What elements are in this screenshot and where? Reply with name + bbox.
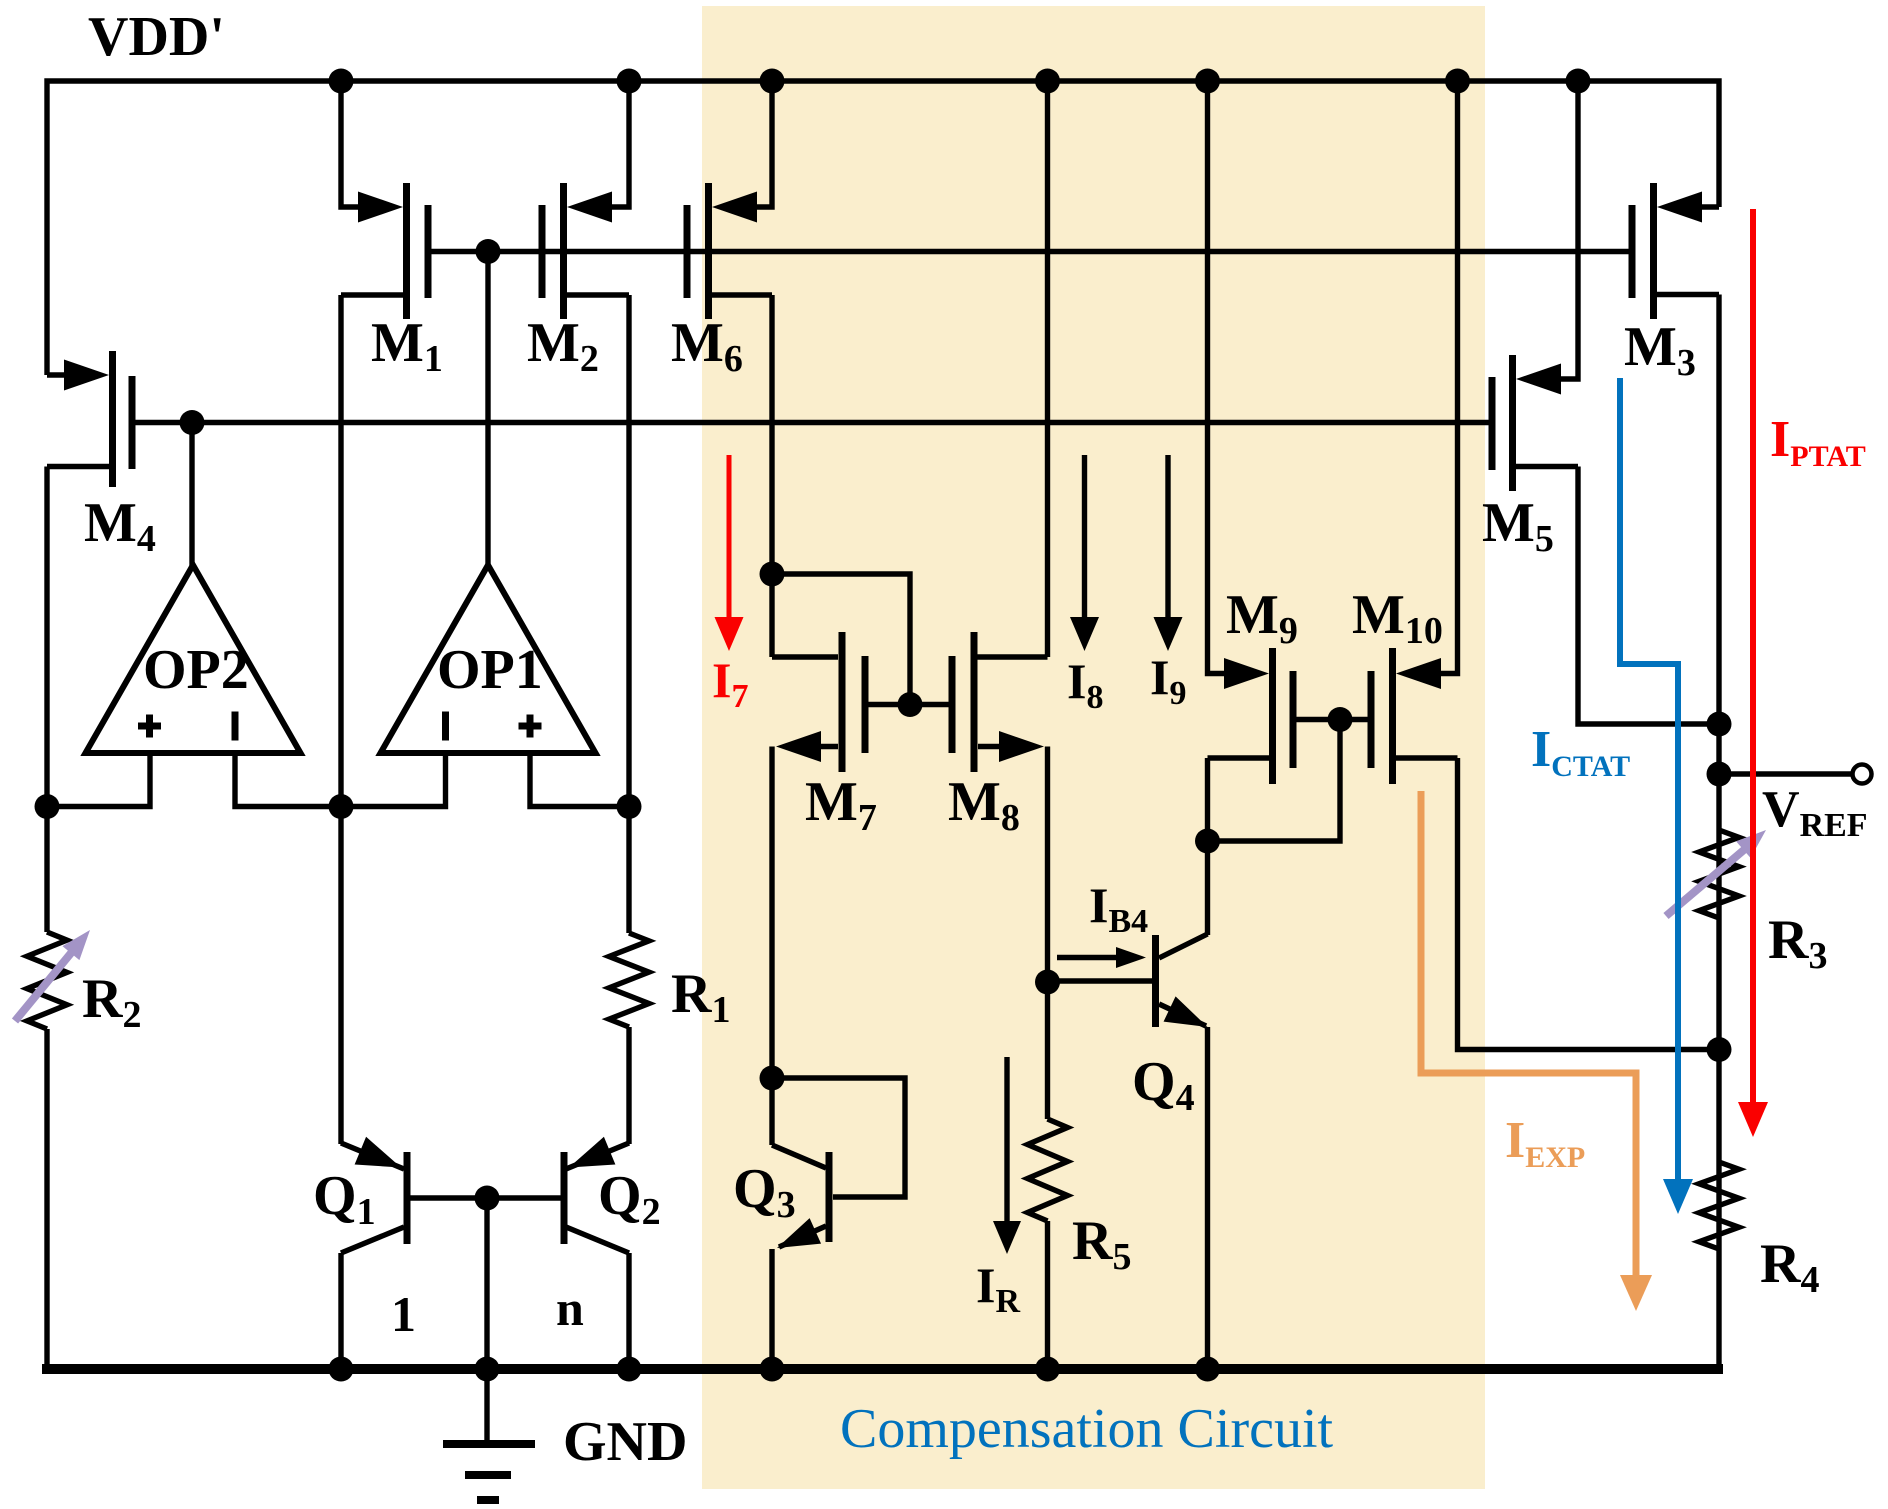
wire M7 source down to Q3 [769, 747, 774, 1146]
svg-text:VREF: VREF [1762, 781, 1868, 844]
wire base tap down to ground rail [484, 1198, 489, 1369]
current arrow IB4 [1057, 955, 1127, 960]
wire M3 drain down right rail to VREF/R3/R4 [1716, 295, 1721, 1370]
wire R5 bottom to ground rail [1045, 1221, 1050, 1369]
R2 adjustment arrow [15, 947, 76, 1021]
svg-text:OP1: OP1 [437, 639, 543, 701]
transistor Q2 (PNP) [561, 1152, 568, 1244]
node Q4 base tap [1035, 970, 1060, 995]
wire M9 diode connection jog [1208, 720, 1341, 842]
node base bus to ground tap [475, 1186, 500, 1211]
node Q3 emitter at ground rail [760, 1357, 785, 1382]
resistor R2 (variable) [27, 932, 67, 1029]
wire R1 bottom to Q2 emitter [626, 1027, 631, 1144]
transistor M9 (PMOS) [1224, 658, 1269, 689]
wire VDD down to M9 source (I9 branch) [1208, 81, 1227, 674]
R3 adjustment arrow [1666, 849, 1745, 916]
node M6 drain / M7 gate tap [760, 562, 785, 587]
wire M7 diode connection jog [772, 574, 910, 705]
svg-text:IEXP: IEXP [1505, 1112, 1585, 1174]
svg-text:M2: M2 [527, 312, 599, 380]
node M10 drain at right rail [1707, 1037, 1732, 1062]
wire OP1 output to gate bus [485, 252, 490, 567]
current arrow I7 [727, 455, 732, 620]
resistor R1 [609, 933, 649, 1027]
wire OP2 output to gate bus [189, 423, 194, 567]
transistor Q1 (PNP) [404, 1152, 411, 1244]
node Q1 collector at ground rail [329, 1357, 354, 1382]
transistor M8 (NMOS) [978, 654, 1048, 659]
transistor M6 (PMOS) [754, 81, 772, 207]
node base tap at ground rail [475, 1357, 500, 1382]
wire Q4 collector up to M9 drain node [1205, 841, 1210, 935]
gate bus wire M1-M2-M6-M3 (OP1 output net) [428, 249, 1632, 254]
node OP inputs at M1 drain net [329, 794, 354, 819]
node Q3 collector tap [760, 1066, 785, 1091]
transistor M3 (PMOS) [1701, 204, 1719, 209]
node M9 drain / Q4 collector [1195, 829, 1220, 854]
wire VDD down to M10 source [1440, 81, 1458, 674]
current arrow IPTAT [1750, 209, 1756, 1105]
junction node VDD-I9 [1195, 69, 1220, 94]
transistor M1 (PMOS) [341, 81, 359, 207]
wire M9-M10 gate bus [1293, 717, 1371, 722]
wire OP1 + input leg [530, 753, 629, 807]
wire Q2 collector to ground rail [626, 1253, 631, 1369]
junction node VDD-I8 [1035, 69, 1060, 94]
ground symbol [484, 1369, 489, 1441]
wire Q1-Q2 base bus [410, 1195, 561, 1200]
svg-text:VDD': VDD' [88, 6, 225, 68]
node OP1 + input at R1 net [617, 794, 642, 819]
svg-text:M4: M4 [84, 492, 156, 560]
wire VREF output [1719, 771, 1852, 776]
transistor Q4 (NPN) [1152, 935, 1159, 1027]
wire Q3 emitter to ground rail [769, 1249, 774, 1369]
current arrow I8 [1082, 455, 1087, 620]
current arrow IR [1004, 1057, 1009, 1222]
transistor Q3 (NPN, diode connected) [826, 1152, 833, 1242]
node M5 drain at right rail [1707, 712, 1732, 737]
wire M5 drain to right rail [1578, 467, 1719, 725]
wire M8 source down to R5 and Q4 base node [1045, 747, 1050, 1120]
wire M4 drain down left edge to R2 [44, 467, 49, 933]
wire OP2 + input leg [47, 753, 150, 807]
svg-text:n: n [556, 1280, 584, 1336]
node OP2 output on gate bus [180, 410, 205, 435]
wire M9 drain to Q4 collector node [1205, 758, 1210, 841]
current arrow I9 [1165, 455, 1170, 620]
gate bus wire M4-M5 (OP2 output net) [132, 420, 1492, 425]
transistor M4 (PMOS) [47, 372, 65, 377]
svg-text:M3: M3 [1624, 316, 1696, 384]
wire Q4 emitter to ground rail [1205, 1027, 1210, 1369]
transistor M5 (PMOS) [1560, 81, 1578, 379]
svg-text:OP2: OP2 [143, 639, 249, 701]
wire M1 drain down to BJT Q1 / OP inputs [338, 295, 343, 1144]
current arrow ICTAT [1620, 378, 1678, 1182]
wire M10 drain to right rail [1458, 758, 1720, 1050]
transistor M2 (PMOS) [611, 81, 629, 207]
junction node VDD-M6 [760, 69, 785, 94]
junction node VDD-M10 [1445, 69, 1470, 94]
junction node VDD-M5 [1566, 69, 1591, 94]
node OP2 + input at left net [35, 794, 60, 819]
wire M2 drain down to R1 [626, 295, 631, 933]
op-amp OP2 [86, 565, 301, 753]
node OP1 output on gate bus [476, 239, 501, 264]
svg-text:M1: M1 [371, 312, 443, 380]
svg-text:Q2: Q2 [598, 1165, 661, 1233]
transistor M7 (NMOS) [772, 654, 838, 659]
wire VDD down to M8 drain (I8 branch) [1045, 81, 1050, 657]
wire Q1 collector to ground rail [338, 1253, 343, 1369]
junction node VDD-M1 [329, 69, 354, 94]
wire M6 drain down to M7 [769, 295, 774, 657]
wire R2 bottom to ground rail [44, 1029, 49, 1372]
current arrow IEXP [1421, 791, 1636, 1278]
wire M7-M8 gate bus [865, 702, 952, 707]
svg-text:R2: R2 [82, 968, 141, 1036]
svg-text:R4: R4 [1760, 1233, 1819, 1301]
wire OP2 - input leg [235, 753, 446, 807]
node R5 at ground rail [1035, 1357, 1060, 1382]
svg-text:IPTAT: IPTAT [1770, 411, 1866, 473]
svg-text:Q1: Q1 [313, 1165, 376, 1233]
svg-text:1: 1 [391, 1286, 416, 1342]
VREF output terminal [1853, 765, 1872, 784]
compensation circuit highlight region [702, 6, 1485, 1489]
junction node VDD-M2 [617, 69, 642, 94]
svg-text:M5: M5 [1482, 492, 1554, 560]
resistor R5 [1028, 1119, 1068, 1221]
transistor M10 (PMOS) [1396, 658, 1441, 689]
VDD' power rail (top) [47, 81, 1719, 375]
node VREF tap [1707, 762, 1732, 787]
resistor R4 [1699, 1162, 1739, 1249]
node Q2 collector at ground rail [617, 1357, 642, 1382]
node M9/M10 gate [1328, 707, 1353, 732]
ground rail (bottom) [42, 1364, 1723, 1374]
wire IB4 base feed [1048, 978, 1153, 983]
node M7/M8 gate [898, 692, 923, 717]
wire Q3 diode connection jog [772, 1078, 905, 1197]
svg-text:R3: R3 [1768, 909, 1827, 977]
svg-text:Compensation Circuit: Compensation Circuit [840, 1398, 1334, 1460]
svg-text:GND: GND [563, 1411, 687, 1473]
op-amp OP1 [381, 565, 596, 753]
svg-text:ICTAT: ICTAT [1531, 721, 1630, 783]
resistor R3 (variable) [1699, 830, 1739, 918]
node Q4 emitter at ground rail [1195, 1357, 1220, 1382]
